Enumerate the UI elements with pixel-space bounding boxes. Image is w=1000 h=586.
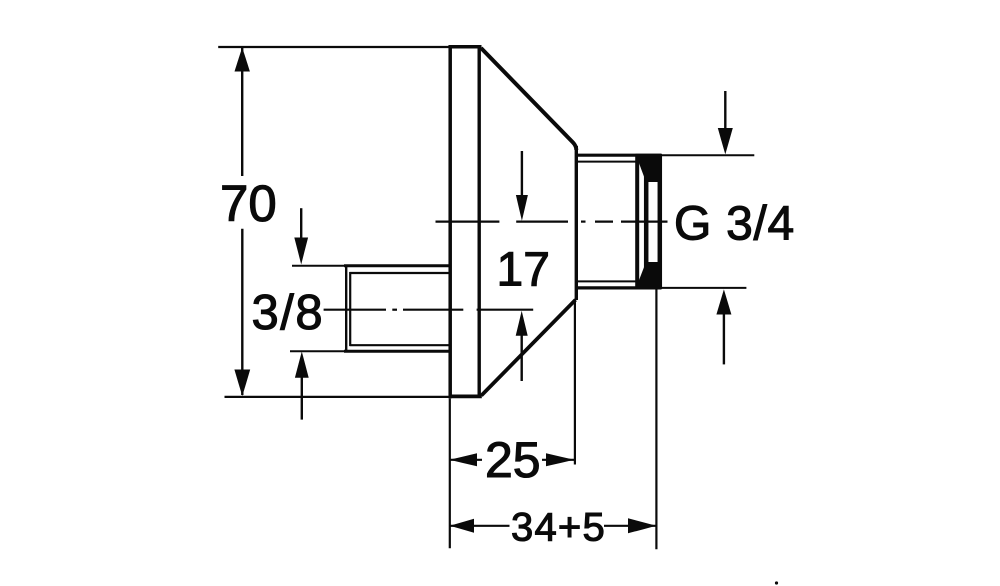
thread end face vertical 1 (635, 155, 639, 288)
svg-text:34+5: 34+5 (511, 506, 606, 550)
dim 25 right extension line (574, 300, 576, 465)
thread boss top major line (577, 154, 662, 157)
thread root line bottom (578, 280, 637, 282)
thread chamfer shading bottom band (636, 262, 663, 289)
arrowhead 17 bottom (up) (516, 311, 528, 336)
dim G3/4 lower arrow shaft (723, 313, 725, 364)
thread boss bottom major line (577, 286, 662, 289)
arrowhead 70 bottom (down) (234, 370, 250, 397)
dim 3/8 lower arrow shaft (301, 376, 303, 420)
dim 70 bottom extension line (225, 396, 452, 398)
arrowhead 70 top (up) (235, 48, 250, 72)
thread root line top (578, 161, 637, 163)
pipe 3/8 inner end vertical (349, 272, 351, 346)
arrowhead 25 left (450, 453, 478, 466)
flange plate right edge (478, 47, 481, 397)
thread chamfer shading top band (636, 154, 663, 182)
dim 34+5 right extension line (655, 289, 657, 549)
arrowhead 34+5 right (628, 518, 656, 533)
cone right face vertical (575, 146, 578, 300)
dim 70 line lower segment (241, 229, 243, 395)
dim G3/4 upper arrow shaft (724, 91, 726, 130)
svg-text:G 3/4: G 3/4 (674, 198, 795, 251)
dim 25 left extension line (449, 399, 451, 549)
flange plate top edge (449, 45, 482, 49)
pipe 3/8 thread root top (350, 272, 451, 274)
dim 25 line right segment (542, 459, 574, 461)
dim 17 lower arrow shaft (521, 334, 523, 381)
svg-text:70: 70 (220, 175, 277, 232)
thread end face vertical 2 (644, 155, 649, 288)
svg-text:3/8: 3/8 (252, 286, 325, 340)
centerline 3/8 pipe axis (324, 309, 534, 311)
arrowhead G3/4 top (down) (718, 128, 733, 154)
pipe 3/8 thread root bottom (350, 344, 451, 346)
thread end face vertical 3 (right edge) (658, 155, 663, 288)
svg-text:17: 17 (497, 243, 550, 296)
arrowhead 3/8 top (down) (294, 238, 308, 265)
dim 17 upper arrow shaft (521, 151, 523, 197)
pipe 3/8 bottom outer line + extension (290, 350, 346, 352)
centerline G3/4 axis (436, 221, 668, 223)
dim 25 line left segment (450, 459, 483, 461)
pipe 3/8 top outer line + extension (292, 265, 346, 267)
extension line right of boss top (661, 154, 754, 156)
svg-text:25: 25 (485, 432, 541, 488)
cone top slope (481, 48, 576, 150)
extension line right of boss bottom (661, 287, 746, 289)
arrowhead 17 top (down) (516, 195, 528, 221)
dim 70 top extension line (218, 46, 450, 48)
arrowhead 25 right (546, 453, 574, 466)
dim 34+5 line right segment (604, 525, 656, 527)
cone bottom slope (481, 300, 575, 396)
flange plate bottom edge (449, 394, 482, 398)
dim 34+5 line left segment (450, 525, 510, 527)
arrowhead 3/8 bottom (up) (295, 352, 309, 378)
flange plate left edge (448, 45, 452, 398)
dim 3/8 upper arrow shaft (300, 208, 302, 240)
arrowhead 34+5 left (450, 519, 474, 533)
pipe 3/8 end vertical (345, 267, 347, 351)
dim 70 line upper segment (241, 48, 243, 176)
speck bottom right (775, 581, 778, 584)
arrowhead G3/4 bottom (up) (716, 289, 731, 314)
